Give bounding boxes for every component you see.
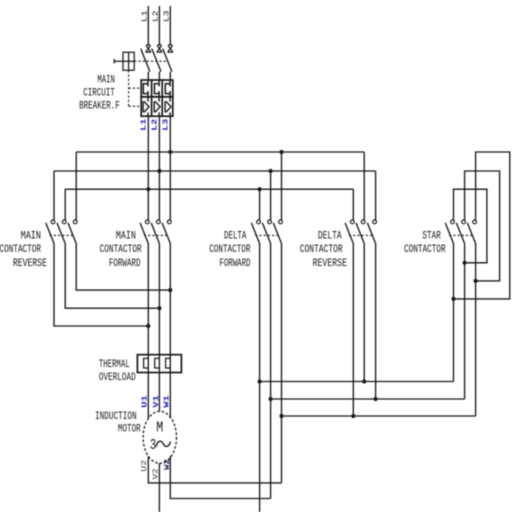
circuit breaker F magnetic element L2 xyxy=(154,97,160,116)
svg-text:W1: W1 xyxy=(164,395,172,408)
contactor main reverse mechanical link dashed xyxy=(50,234,74,236)
junction delta-forward col2 bus row2 xyxy=(269,169,273,173)
svg-text:CONTACTOR: CONTACTOR xyxy=(100,244,142,256)
wire star col3 down to bus C xyxy=(475,244,477,417)
contactor main reverse pole 3 xyxy=(73,220,77,224)
junction L1 bus row3 xyxy=(146,187,150,191)
svg-text:INDUCTION: INDUCTION xyxy=(95,411,137,423)
junction delta-reverse col3 bus B xyxy=(374,397,378,401)
wire star col3 top bridge to col1 xyxy=(454,152,510,299)
contactor delta forward pole 2 xyxy=(268,220,272,224)
svg-text:CONTACTOR: CONTACTOR xyxy=(300,244,343,256)
svg-text:OVERLOAD: OVERLOAD xyxy=(99,372,136,384)
junction delta-forward col3 bus C xyxy=(279,414,283,418)
svg-text:V1: V1 xyxy=(153,395,161,408)
contactor main forward pole 3 xyxy=(167,220,171,224)
terminal L2 plug-in connector xyxy=(157,45,163,52)
junction delta-reverse col2 bus A xyxy=(362,379,366,383)
svg-text:3: 3 xyxy=(150,438,156,454)
wire delta-reverse col2 stub xyxy=(363,152,365,220)
contactor delta forward pole 3 xyxy=(279,220,283,224)
wire reverse col1 to L1 xyxy=(54,244,148,327)
svg-text:CIRCUIT: CIRCUIT xyxy=(83,87,115,99)
contactor delta reverse pole 3 xyxy=(373,220,377,224)
contactor main reverse pole 1 xyxy=(51,220,55,224)
circuit breaker F pole L1 blade xyxy=(141,49,150,80)
svg-text:STAR: STAR xyxy=(422,230,441,242)
junction L3 bus row1 xyxy=(168,150,172,154)
svg-text:THERMAL: THERMAL xyxy=(99,359,130,371)
wire star col1 top bridge to col2 xyxy=(454,189,487,263)
wire star col2 down to bus B xyxy=(464,244,466,400)
contactor star pole 2 xyxy=(462,220,466,224)
junction star bridge col1 xyxy=(451,297,455,301)
wire delta-forward col3 stub xyxy=(281,152,283,220)
wire delta-forward col2 stub xyxy=(270,171,272,220)
svg-text:DELTA: DELTA xyxy=(318,230,342,242)
wire bus row1 L3 tap xyxy=(76,151,364,153)
svg-text:BREAKER.F: BREAKER.F xyxy=(79,101,120,113)
svg-text:MAIN: MAIN xyxy=(116,230,136,242)
junction delta-forward col1 bus A xyxy=(258,379,262,383)
contactor main forward pole 2 xyxy=(157,220,161,224)
wire bus A xyxy=(260,381,454,383)
circuit breaker F thermal row box xyxy=(141,80,173,97)
wire reverse col2 to L2 xyxy=(65,244,159,309)
wire delta-reverse col3 stub xyxy=(375,171,377,220)
svg-text:CONTACTOR: CONTACTOR xyxy=(209,244,251,256)
svg-text:MAIN: MAIN xyxy=(21,230,41,242)
wire phase L3 breaker to forward contactor xyxy=(169,116,171,220)
svg-text:DELTA: DELTA xyxy=(224,230,247,242)
circuit breaker F magnetic row box xyxy=(141,97,173,116)
wire supply L2 drop xyxy=(158,6,160,45)
junction star bridge col3 xyxy=(474,279,478,283)
wire delta-reverse col1 to bus C xyxy=(352,244,354,417)
wire phase L1 breaker to forward contactor xyxy=(147,116,149,220)
contactor delta reverse pole 1 xyxy=(350,220,354,224)
induction motor circle M 3~ xyxy=(143,411,176,463)
contactor star pole 1 xyxy=(451,220,455,224)
wire delta-forward col1 stub xyxy=(259,189,261,220)
thermal overload heater element L1 xyxy=(144,358,149,368)
svg-text:FORWARD: FORWARD xyxy=(219,258,250,270)
svg-text:MAIN: MAIN xyxy=(97,74,114,86)
circuit breaker F pole L3 blade xyxy=(163,49,172,80)
svg-text:L1: L1 xyxy=(142,11,150,23)
svg-text:M: M xyxy=(156,421,163,437)
contactor star mechanical link dashed xyxy=(449,234,473,236)
svg-text:REVERSE: REVERSE xyxy=(313,258,348,270)
wire delta-forward col2 contactor to W2 link xyxy=(270,244,272,499)
contactor star pole 3 xyxy=(473,220,477,224)
wire reverse col3 to L3 xyxy=(76,244,170,291)
wire star col2 top bridge to col3 xyxy=(465,171,500,281)
wire bus C xyxy=(282,415,476,417)
terminal L3 plug-in connector xyxy=(167,45,173,52)
wire delta-reverse col3 to bus B xyxy=(375,244,377,400)
wire delta-forward col1 contactor to bottom edge xyxy=(259,244,261,512)
junction delta-forward col3 bus row1 xyxy=(279,150,283,154)
svg-text:FORWARD: FORWARD xyxy=(109,258,141,270)
circuit breaker F magnetic element L3 xyxy=(165,97,171,116)
junction reverse-L1 xyxy=(146,324,150,328)
junction star bridge col2 xyxy=(463,261,467,265)
wire motor W2 to delta-forward col2 xyxy=(170,456,270,498)
junction reverse-L3 xyxy=(168,288,172,292)
wire phase L3 forward contactor to motor xyxy=(169,244,171,419)
circuit breaker F thermal element L2 xyxy=(154,80,159,97)
contactor main forward mechanical link dashed xyxy=(144,234,168,236)
circuit breaker F thermal element L1 xyxy=(143,80,148,97)
svg-text:L1: L1 xyxy=(140,119,148,131)
circuit breaker F trip linkage dashed xyxy=(134,60,167,62)
wire bus row3 L1 tap xyxy=(65,188,353,190)
svg-text:U1: U1 xyxy=(142,395,150,408)
circuit breaker F operator link dashed xyxy=(129,70,142,106)
wire supply L3 drop xyxy=(169,6,171,45)
wire reverse col1 stub xyxy=(53,171,55,220)
circuit breaker F operator handle xyxy=(114,52,134,70)
svg-text:MOTOR: MOTOR xyxy=(118,424,141,436)
circuit breaker F pole L2 blade xyxy=(152,49,161,80)
wire delta-reverse col2 to bus A xyxy=(363,244,365,382)
junction L2 bus row2 xyxy=(157,169,161,173)
svg-text:CONTACTOR: CONTACTOR xyxy=(0,244,41,256)
wire delta-reverse col1 stub xyxy=(352,189,354,220)
wire delta-forward col3 contactor to U2 link xyxy=(281,244,283,483)
svg-text:L3: L3 xyxy=(162,119,170,131)
svg-text:REVERSE: REVERSE xyxy=(13,258,47,270)
wire motor V2 to bottom edge xyxy=(158,463,160,512)
wire phase L2 forward contactor to motor xyxy=(158,244,160,412)
junction reverse-L2 xyxy=(157,306,161,310)
contactor delta forward pole 1 xyxy=(257,220,261,224)
thermal overload heater element L3 xyxy=(166,358,171,368)
circuit breaker F thermal element L3 xyxy=(165,80,170,97)
wire reverse col2 stub xyxy=(64,189,66,220)
wire bus row2 L2 tap xyxy=(54,170,376,172)
thermal overload heater element L2 xyxy=(155,358,160,368)
motor tilde sine symbol xyxy=(156,441,170,446)
contactor delta reverse pole 2 xyxy=(361,220,365,224)
wire phase L2 breaker to forward contactor xyxy=(158,116,160,220)
svg-text:CONTACTOR: CONTACTOR xyxy=(404,244,446,256)
thermal overload relay box xyxy=(137,355,181,373)
svg-text:L2: L2 xyxy=(153,11,161,23)
junction delta-forward col1 bus row3 xyxy=(258,187,262,191)
wire reverse col3 stub xyxy=(75,152,77,220)
svg-text:L2: L2 xyxy=(151,119,159,131)
terminal L1 plug-in connector xyxy=(145,45,151,52)
wire supply L1 drop xyxy=(147,6,149,45)
wire bus B xyxy=(271,398,465,400)
svg-text:L3: L3 xyxy=(164,11,172,23)
contactor main reverse pole 2 xyxy=(62,220,66,224)
wire motor U2 to delta-forward col3 xyxy=(148,456,281,483)
junction delta-reverse col1 bus C xyxy=(351,414,355,418)
wire phase L1 forward contactor to motor xyxy=(147,244,149,419)
junction delta-forward col2 bus B xyxy=(269,397,273,401)
wire star col1 down to bus A xyxy=(453,244,455,382)
contactor main forward pole 1 xyxy=(145,220,149,224)
contactor delta forward mechanical link dashed xyxy=(255,234,279,236)
contactor delta reverse mechanical link dashed xyxy=(349,234,373,236)
circuit breaker F magnetic element L1 xyxy=(143,97,149,116)
